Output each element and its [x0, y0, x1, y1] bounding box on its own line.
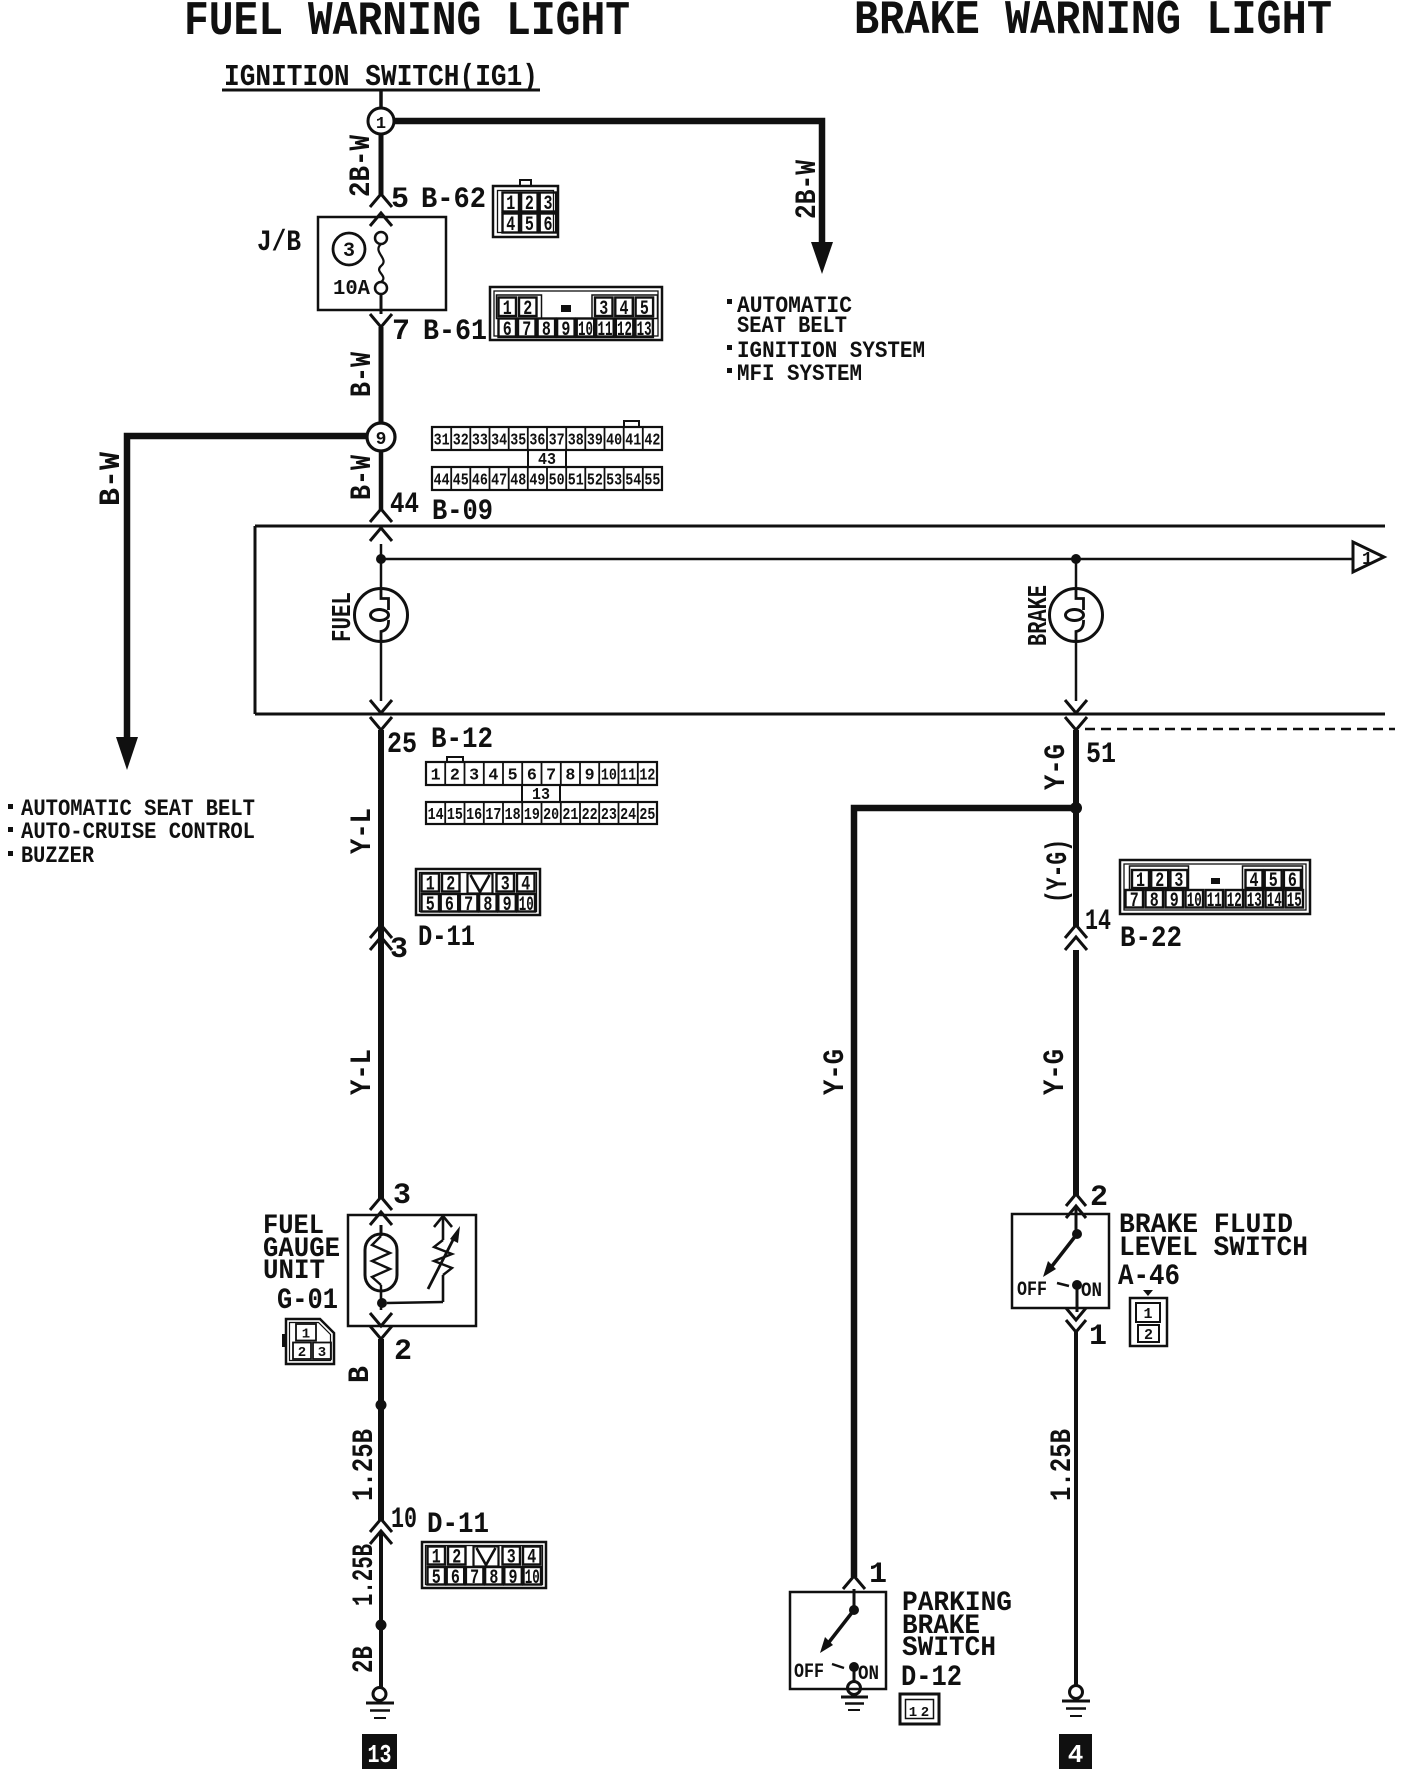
- svg-text:10A: 10A: [333, 278, 370, 301]
- wire 1.25B D-11 to ground (left): [379, 1531, 383, 1688]
- label Y-G (parking brake branch): [819, 1049, 853, 1095]
- circled 3 fuse number: [333, 233, 365, 265]
- svg-text:33: 33: [472, 432, 488, 451]
- destination list: AUTOMATIC SEAT BELT / IGNITION SYSTEM / MFI SYSTEM: [727, 299, 732, 304]
- connector D-12 icon: [900, 1694, 939, 1724]
- svg-text:46: 46: [472, 472, 488, 491]
- svg-text:10: 10: [578, 319, 593, 342]
- wire B-W node 9 to combination meter: [379, 451, 384, 510]
- svg-text:5: 5: [391, 183, 409, 217]
- svg-text:MFI SYSTEM: MFI SYSTEM: [737, 361, 862, 387]
- svg-text:1: 1: [869, 1558, 887, 1592]
- connector symbol pin 25 B-12 (double chevron): [370, 700, 392, 713]
- svg-text:4: 4: [1068, 1740, 1084, 1770]
- switch pivot dot (brake fluid): [1072, 1229, 1082, 1239]
- wire meter bus to BRAKE lamp: [1075, 559, 1078, 590]
- svg-text:15: 15: [1287, 890, 1302, 913]
- svg-text:B-W: B-W: [95, 452, 129, 506]
- connector symbol pin 44 B-09 (double chevron): [370, 509, 392, 522]
- node 1 (circled): [368, 108, 394, 134]
- svg-text:7: 7: [470, 1567, 479, 1590]
- svg-text:31: 31: [434, 432, 450, 451]
- label FUEL (rotated): [329, 592, 359, 642]
- wire BRAKE lamp to meter bottom: [1075, 641, 1078, 701]
- wire into parking brake switch: [853, 1589, 856, 1610]
- svg-text:6: 6: [445, 894, 454, 917]
- wire into fuel gauge unit: [380, 1225, 383, 1236]
- svg-text:2: 2: [450, 767, 460, 786]
- svg-text:B-22: B-22: [1120, 922, 1182, 956]
- svg-text:1: 1: [909, 1705, 917, 1721]
- svg-text:35: 35: [510, 432, 526, 451]
- junction dot brake lamp feed: [1071, 554, 1081, 564]
- svg-text:B: B: [344, 1366, 378, 1383]
- svg-text:20: 20: [543, 806, 559, 825]
- svg-text:44: 44: [434, 472, 450, 491]
- connector D-11 icon (upper): [416, 869, 540, 915]
- label 2B-W (left wire): [345, 135, 379, 197]
- label (Y-G): [1042, 839, 1076, 903]
- svg-text:7: 7: [392, 315, 410, 349]
- fuse 10A (symbol): [375, 232, 387, 244]
- combination meter box (open right): [255, 525, 1385, 528]
- svg-text:2: 2: [921, 1705, 929, 1721]
- connector B-61 icon: [490, 287, 662, 340]
- svg-text:AUTO-CRUISE CONTROL: AUTO-CRUISE CONTROL: [21, 819, 255, 845]
- label 1.25B (upper left): [348, 1429, 382, 1501]
- wire B-W J/B to node 9: [379, 327, 384, 424]
- label 1.25B (lower left): [348, 1544, 382, 1606]
- label Y-G (right column): [1039, 1049, 1073, 1095]
- svg-text:11: 11: [1207, 890, 1222, 913]
- svg-text:3: 3: [318, 1345, 326, 1361]
- svg-text:1: 1: [1362, 550, 1373, 570]
- svg-text:55: 55: [644, 472, 660, 491]
- svg-text:SEAT BELT: SEAT BELT: [737, 313, 847, 339]
- svg-text:7: 7: [546, 767, 556, 786]
- wire B fuel gauge to splice: [378, 1339, 384, 1520]
- wire ignition switch to node 1: [379, 91, 383, 108]
- fuel gauge sender element (stadium with zigzag): [365, 1234, 397, 1291]
- svg-text:Y-G: Y-G: [819, 1049, 853, 1095]
- svg-text:12: 12: [617, 319, 632, 342]
- svg-text:42: 42: [644, 432, 660, 451]
- switch dashed throw (brake fluid): [1057, 1283, 1069, 1286]
- svg-text:5: 5: [432, 1567, 441, 1590]
- svg-text:11: 11: [620, 767, 636, 786]
- svg-text:A-46: A-46: [1118, 1260, 1180, 1294]
- svg-text:1: 1: [1143, 1306, 1152, 1323]
- switch pivot dot (parking brake): [849, 1605, 859, 1615]
- connector symbol pin 3 D-11 (double chevron): [370, 925, 392, 938]
- svg-text:47: 47: [491, 472, 507, 491]
- svg-text:13: 13: [368, 1740, 392, 1770]
- svg-text:53: 53: [606, 472, 622, 491]
- wire B-W branch to seat-belt/cruise/buzzer (thick with arrow): [127, 436, 368, 739]
- svg-text:1.25B: 1.25B: [1046, 1429, 1080, 1501]
- node 9 (circled): [367, 423, 395, 451]
- svg-text:B-12: B-12: [431, 723, 493, 757]
- ground terminal (right): [1070, 1686, 1083, 1699]
- svg-text:3: 3: [393, 1179, 411, 1213]
- wire into brake fluid switch: [1075, 1206, 1078, 1234]
- svg-text:9: 9: [585, 767, 595, 786]
- svg-text:D-11: D-11: [427, 1508, 489, 1542]
- svg-text:Y-L: Y-L: [346, 1049, 380, 1095]
- ground ref 13 (black box): [362, 1734, 397, 1769]
- fuel gauge unit box: [348, 1215, 476, 1326]
- svg-text:BRAKE WARNING LIGHT: BRAKE WARNING LIGHT: [854, 0, 1332, 48]
- svg-text:6: 6: [544, 214, 553, 237]
- svg-text:16: 16: [466, 806, 482, 825]
- wire Y-G connector B-22 to brake fluid level switch: [1073, 950, 1079, 1196]
- svg-text:B-09: B-09: [432, 495, 493, 529]
- label B-W (upper): [346, 352, 380, 397]
- svg-text:1: 1: [431, 767, 441, 786]
- connector B-09 icon: [624, 421, 639, 427]
- svg-text:37: 37: [549, 432, 565, 451]
- svg-text:17: 17: [485, 806, 501, 825]
- svg-text:ON: ON: [1081, 1280, 1102, 1303]
- label Y-L (upper): [346, 808, 380, 854]
- svg-text:7: 7: [464, 894, 473, 917]
- connector B-22 icon: [1120, 860, 1310, 914]
- svg-text:38: 38: [568, 432, 584, 451]
- connector D-11 icon (lower): [422, 1542, 546, 1588]
- svg-text:12: 12: [639, 767, 655, 786]
- svg-text:10: 10: [1187, 890, 1202, 913]
- connector symbol pin 1 (double chevron): [1066, 1308, 1086, 1320]
- svg-text:6: 6: [527, 767, 537, 786]
- svg-text:8: 8: [542, 319, 551, 342]
- lamp FUEL: [355, 589, 408, 642]
- svg-text:5: 5: [508, 767, 518, 786]
- svg-text:18: 18: [505, 806, 521, 825]
- svg-text:1.25B: 1.25B: [348, 1429, 382, 1501]
- svg-text:25: 25: [639, 806, 655, 825]
- label 1.25B (right): [1046, 1429, 1080, 1501]
- label BRAKE (rotated): [1025, 585, 1055, 646]
- svg-text:SWITCH: SWITCH: [902, 1633, 996, 1664]
- variable resistor branch (fuel gauge): [442, 1215, 445, 1240]
- connector symbol pin 14 B-22 (double chevron): [1065, 925, 1087, 938]
- connector symbol pin 51 (double chevron): [1065, 700, 1087, 713]
- connector symbol fuel gauge pin 3 (double chevron): [370, 1197, 392, 1210]
- svg-text:2: 2: [1090, 1181, 1108, 1215]
- svg-text:Y-G: Y-G: [1040, 744, 1074, 790]
- connector symbol pin 1 parking brake (chevron): [843, 1576, 865, 1589]
- svg-text:9: 9: [376, 430, 387, 450]
- connector symbol fuel gauge pin 2 (double chevron): [370, 1313, 392, 1326]
- svg-text:19: 19: [524, 806, 540, 825]
- svg-text:3: 3: [469, 767, 479, 786]
- svg-text:14: 14: [428, 806, 444, 825]
- connector B-12 icon: [447, 757, 463, 762]
- off-page arrow 1: [1353, 542, 1384, 572]
- svg-text:FUEL: FUEL: [329, 592, 359, 642]
- label B-W (lower): [346, 455, 380, 500]
- svg-text:52: 52: [587, 472, 603, 491]
- wire FUEL lamp to meter bottom: [380, 641, 383, 701]
- svg-text:D-11: D-11: [418, 921, 475, 955]
- svg-text:(Y-G): (Y-G): [1042, 839, 1076, 903]
- wire (Y-G) junction to connector B-22: [1073, 808, 1079, 926]
- connector symbol pin 2 (double chevron): [1066, 1194, 1086, 1206]
- svg-text:34: 34: [491, 432, 507, 451]
- svg-text:B-62: B-62: [421, 183, 486, 217]
- svg-text:12: 12: [1227, 890, 1242, 913]
- svg-text:2B: 2B: [348, 1646, 382, 1673]
- wire Y-G pin 51 to parking-brake junction: [1073, 730, 1079, 812]
- svg-text:1: 1: [302, 1327, 310, 1343]
- label 2B: [348, 1646, 382, 1673]
- svg-text:B-61: B-61: [423, 315, 487, 349]
- connector symbol pin 10 D-11 (double chevron): [370, 1519, 392, 1532]
- svg-text:36: 36: [529, 432, 545, 451]
- svg-text:49: 49: [529, 472, 545, 491]
- svg-text:39: 39: [587, 432, 603, 451]
- label Y-L (lower): [346, 1049, 380, 1095]
- svg-text:10: 10: [519, 894, 534, 917]
- svg-text:15: 15: [447, 806, 463, 825]
- svg-text:8: 8: [489, 1567, 498, 1590]
- label B: [344, 1366, 378, 1383]
- wire meter top to FUEL lamp: [380, 544, 383, 590]
- junction block J/B box: [318, 217, 446, 310]
- connector symbol pin 7 B-61 (chevron): [370, 314, 392, 327]
- svg-text:9: 9: [509, 1567, 518, 1590]
- svg-text:11: 11: [598, 319, 613, 342]
- svg-text:4: 4: [488, 767, 498, 786]
- switch lever (brake fluid): [1049, 1234, 1077, 1270]
- wire ON contact to chassis ground: [853, 1667, 856, 1681]
- svg-text:Y-L: Y-L: [346, 808, 380, 854]
- lamp BRAKE: [1050, 589, 1103, 642]
- svg-text:D-12: D-12: [901, 1661, 962, 1695]
- svg-text:10: 10: [601, 767, 617, 786]
- svg-text:2B-W: 2B-W: [345, 135, 379, 197]
- svg-text:G-01: G-01: [277, 1284, 338, 1318]
- svg-text:8: 8: [565, 767, 575, 786]
- svg-text:2: 2: [1144, 1327, 1153, 1344]
- wire Y-G junction to parking brake switch (thick): [854, 808, 1073, 1577]
- svg-text:25: 25: [387, 728, 417, 762]
- dashed off-page boundary line: [1085, 728, 1395, 731]
- svg-text:OFF: OFF: [1017, 1279, 1047, 1302]
- svg-text:8: 8: [483, 894, 492, 917]
- svg-text:9: 9: [503, 894, 512, 917]
- wire fuse to connector B-61: [380, 294, 383, 314]
- svg-text:8: 8: [1150, 890, 1159, 913]
- svg-text:9: 9: [561, 319, 570, 342]
- label Y-G (below 51): [1040, 744, 1074, 790]
- switch lever (parking brake): [826, 1610, 854, 1646]
- svg-text:24: 24: [620, 806, 636, 825]
- svg-text:5: 5: [525, 214, 534, 237]
- switch dashed throw (parking brake): [832, 1664, 844, 1668]
- svg-text:1: 1: [1089, 1320, 1107, 1354]
- svg-text:7: 7: [1130, 890, 1139, 913]
- svg-text:13: 13: [637, 319, 652, 342]
- svg-text:B-W: B-W: [346, 352, 380, 397]
- svg-text:7: 7: [522, 319, 531, 342]
- svg-text:ON: ON: [858, 1663, 879, 1686]
- svg-text:14: 14: [1267, 890, 1282, 913]
- svg-text:2B-W: 2B-W: [791, 160, 825, 219]
- switch ON contact dot (brake fluid): [1072, 1280, 1082, 1290]
- svg-text:54: 54: [625, 472, 641, 491]
- svg-text:5: 5: [426, 894, 435, 917]
- svg-text:10: 10: [391, 1503, 417, 1537]
- svg-text:4: 4: [506, 214, 515, 237]
- svg-text:OFF: OFF: [794, 1661, 824, 1684]
- connector symbol pin 5 B-62 (chevron): [370, 194, 392, 207]
- ground ref 4 (black box): [1059, 1734, 1092, 1769]
- svg-text:14: 14: [1085, 905, 1111, 939]
- svg-text:FUEL WARNING LIGHT: FUEL WARNING LIGHT: [184, 0, 630, 49]
- svg-text:40: 40: [606, 432, 622, 451]
- svg-text:23: 23: [601, 806, 617, 825]
- svg-text:50: 50: [549, 472, 565, 491]
- wire inside meter to off-page arrow: [381, 558, 1353, 561]
- connector G-01 icon: [286, 1319, 334, 1364]
- svg-text:BUZZER: BUZZER: [21, 843, 94, 869]
- wire ON contact to box bottom: [1076, 1285, 1079, 1312]
- switch ON contact dot (parking brake): [849, 1662, 859, 1672]
- svg-text:44: 44: [390, 488, 419, 522]
- wire Y-L meter to connector D-11: [378, 730, 384, 1198]
- svg-text:10: 10: [525, 1567, 540, 1590]
- label 2B-W (right branch): [791, 160, 825, 219]
- connector symbol at J/B entry (chevron): [370, 213, 392, 226]
- svg-text:48: 48: [510, 472, 526, 491]
- svg-text:BRAKE: BRAKE: [1025, 585, 1055, 646]
- svg-text:51: 51: [568, 472, 584, 491]
- svg-text:6: 6: [451, 1567, 460, 1590]
- ground terminal (left): [373, 1688, 386, 1701]
- junction dot parking brake branch: [1070, 802, 1082, 814]
- label B-W (left branch): [95, 452, 129, 506]
- wire 1.25B brake fluid switch to ground: [1074, 1332, 1078, 1686]
- svg-text:3: 3: [343, 240, 355, 263]
- parking brake switch box D-12: [790, 1592, 886, 1689]
- svg-text:2: 2: [394, 1335, 412, 1369]
- splice dot (B / 1.25B): [376, 1400, 387, 1411]
- svg-text:21: 21: [562, 806, 578, 825]
- svg-text:3: 3: [390, 933, 408, 967]
- chassis ground (parking brake): [848, 1682, 861, 1695]
- svg-text:6: 6: [503, 319, 512, 342]
- svg-text:B-W: B-W: [346, 455, 380, 500]
- junction dot fuel lamp feed: [376, 554, 386, 564]
- svg-text:UNIT: UNIT: [263, 1256, 325, 1287]
- connector A-46 icon: [1143, 1290, 1153, 1296]
- junction dot inside fuel gauge unit: [377, 1298, 387, 1308]
- svg-text:1.25B: 1.25B: [348, 1544, 382, 1606]
- svg-text:51: 51: [1086, 738, 1116, 772]
- destination list: AUTOMATIC SEAT BELT / AUTO-CRUISE CONTROL / BUZZER: [8, 804, 13, 809]
- svg-text:32: 32: [453, 432, 469, 451]
- svg-text:41: 41: [625, 432, 641, 451]
- svg-text:13: 13: [1247, 890, 1262, 913]
- svg-text:45: 45: [453, 472, 469, 491]
- wire 2B-W bus to seat-belt/ignition/MFI systems (thick with arrow): [394, 121, 822, 243]
- wire 2B-W node 1 to connector B-62: [379, 134, 384, 196]
- connector B-62 icon: [493, 186, 558, 237]
- svg-text:9: 9: [1170, 890, 1179, 913]
- svg-text:1: 1: [376, 115, 386, 134]
- wire sender to junction: [380, 1291, 383, 1310]
- svg-text:22: 22: [582, 806, 598, 825]
- brake fluid level switch box A-46: [1012, 1214, 1109, 1308]
- svg-text:J/B: J/B: [257, 226, 301, 260]
- svg-text:2: 2: [298, 1345, 306, 1361]
- svg-text:Y-G: Y-G: [1039, 1049, 1073, 1095]
- splice dot (1.25B / 2B): [376, 1620, 387, 1631]
